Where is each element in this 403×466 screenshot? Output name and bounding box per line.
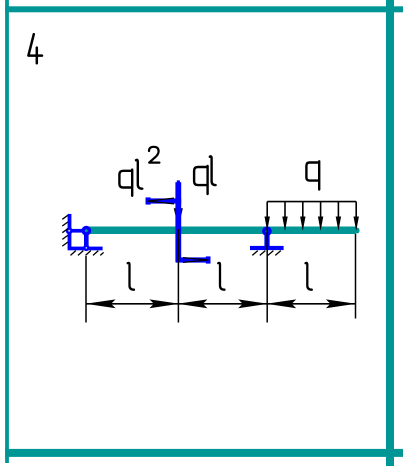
- distributed load q top line: [267, 201, 356, 203]
- dimension arrowheads segment 1: [86, 299, 180, 308]
- moment top arm bar: [146, 198, 182, 203]
- left support horizontal link: [68, 229, 86, 233]
- middle support pin: [262, 226, 272, 236]
- label ql^2 : q glyph: [119, 170, 132, 196]
- dimension arrowheads segment 3: [266, 299, 356, 308]
- distributed load droppers: [267, 202, 356, 218]
- label q (distributed load): [306, 161, 319, 189]
- dimension label l segment 2: [218, 263, 224, 290]
- left support wall hatching: [62, 215, 68, 246]
- dimension label l segment 1: [128, 263, 134, 290]
- left support base pin: [83, 245, 89, 251]
- left support wall bar: [68, 214, 72, 248]
- middle support ground hatching: [252, 251, 280, 256]
- label ql : l glyph: [210, 156, 216, 185]
- frame left vertical border: [5, 0, 9, 463]
- label 4 (problem number): [28, 34, 42, 63]
- force ql arrowhead (under moment bar): [174, 208, 183, 227]
- dimension arrowheads segment 2: [177, 299, 268, 308]
- moment top arm tip bump: [146, 197, 151, 204]
- label ql^2 : superscript 2: [149, 147, 159, 163]
- dimension line: [86, 303, 356, 305]
- moment ql^2 vertical bar: [175, 182, 181, 262]
- moment bar top nub: [177, 180, 180, 183]
- middle support stem: [264, 233, 269, 247]
- extension line at left support: [85, 256, 87, 323]
- left support base bar: [68, 247, 103, 251]
- label ql : q glyph: [194, 166, 208, 194]
- extension line at beam right end: [355, 234, 357, 319]
- beam: [85, 227, 356, 235]
- dimension label l segment 3: [306, 263, 312, 290]
- left support ground hatching: [71, 251, 104, 256]
- extension line at moment/force point: [177, 229, 179, 323]
- distributed load arrowheads: [265, 217, 359, 232]
- frame top border: [5, 6, 403, 12]
- moment top arrowhead outline (points left): [148, 198, 175, 204]
- frame bottom border: [5, 449, 403, 457]
- left support vertical link: [84, 232, 89, 247]
- left support beam pin: [81, 226, 91, 236]
- extension line at middle support: [266, 222, 268, 323]
- left support wall pin: [66, 227, 73, 234]
- middle support base bar: [250, 246, 284, 250]
- moment bottom arrowhead outline (points right): [183, 258, 208, 263]
- frame right vertical border: [386, 0, 394, 466]
- label ql^2 : l glyph: [136, 160, 142, 189]
- moment bottom arm bar: [176, 257, 211, 262]
- moment bottom arm tip bump: [206, 256, 211, 263]
